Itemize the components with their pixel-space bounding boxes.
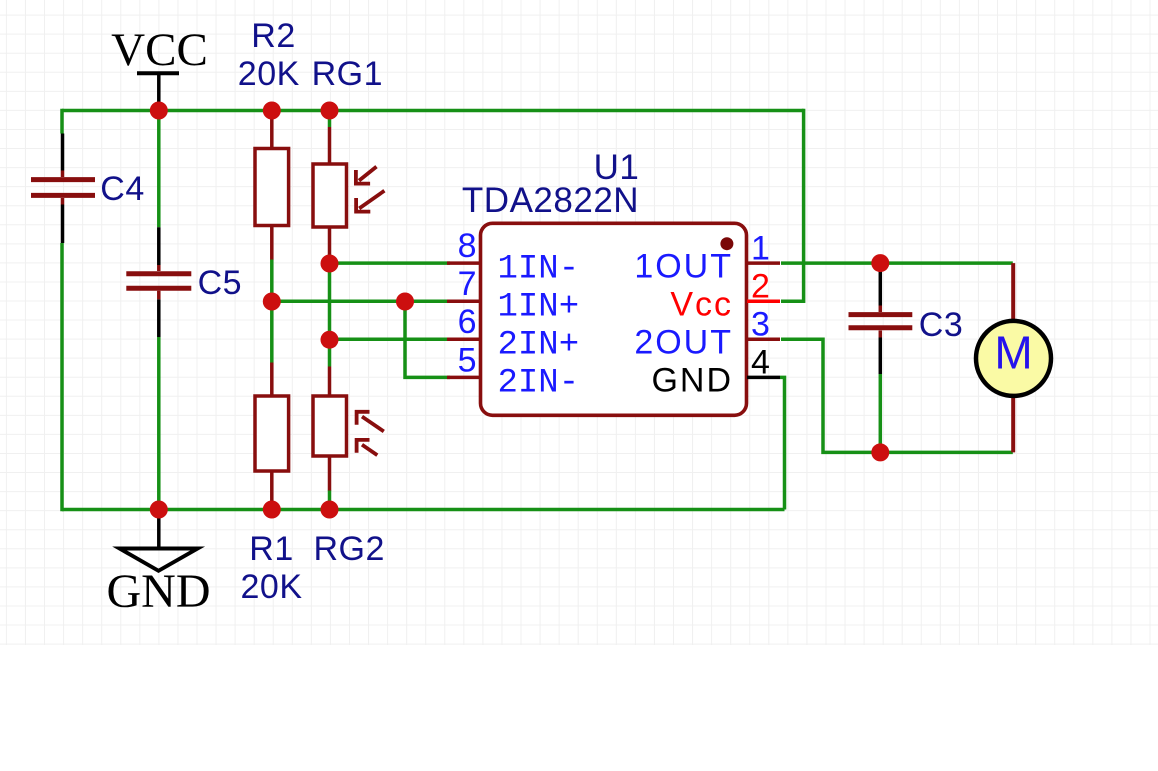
svg-text:RG1: RG1 [312, 55, 383, 93]
svg-text:R2: R2 [251, 17, 295, 55]
pin 7 [447, 299, 480, 303]
photoresistor RG1 [313, 127, 384, 255]
junction R1 bottom / bottom rail [263, 501, 281, 519]
svg-text:8: 8 [458, 227, 477, 265]
svg-text:4: 4 [751, 344, 770, 382]
wire branch to U1 pin 5 [405, 301, 450, 377]
svg-text:C5: C5 [198, 264, 242, 302]
junction VCC / top rail [150, 102, 168, 120]
motor M leads [1011, 263, 1015, 452]
photoresistor RG2 [313, 367, 384, 491]
wire node R2/R1 to U1 pin 7 [272, 299, 450, 303]
svg-text:2: 2 [751, 268, 770, 306]
svg-text:GND: GND [651, 362, 733, 400]
wire node RG1/RG2 to U1 pin 6 [330, 338, 451, 342]
junction pin7 wire branch to pin 5 [396, 293, 414, 311]
capacitor C4 [31, 134, 95, 244]
svg-text:2OUT: 2OUT [634, 324, 733, 362]
svg-text:1: 1 [751, 229, 770, 267]
svg-text:7: 7 [458, 265, 477, 303]
power flag VCC [137, 73, 179, 106]
svg-text:20K: 20K [238, 55, 300, 93]
wire bottom ground rail [62, 508, 785, 512]
svg-text:6: 6 [458, 303, 477, 341]
svg-text:1OUT: 1OUT [634, 247, 733, 285]
svg-text:GND: GND [107, 565, 211, 618]
junction C3 top / output [871, 254, 889, 272]
junction RG1 top / top rail [321, 102, 339, 120]
wire U1 pin 1 to C3 and motor top [781, 261, 1013, 265]
pin 6 [447, 338, 480, 342]
wire C3 bottom to output rail [879, 374, 883, 452]
wire left rail top segment (to C4) [60, 109, 64, 134]
junction R2 top / top rail [263, 102, 281, 120]
svg-text:VCC: VCC [111, 24, 208, 76]
junction GND / bottom rail [150, 501, 168, 519]
wire VCC junction down to C5 [157, 111, 161, 228]
svg-text:C4: C4 [100, 170, 144, 208]
svg-text:C3: C3 [919, 306, 963, 344]
motor M [976, 321, 1051, 396]
svg-text:RG2: RG2 [313, 530, 384, 568]
junction R2-R1 node to pin 7 [263, 293, 281, 311]
junction RG1-RG2 node to pin 6 [321, 331, 339, 349]
junction RG2 bottom / bottom rail [321, 501, 339, 519]
junction C3 bottom / output return [871, 443, 889, 461]
svg-text:R1: R1 [249, 530, 293, 568]
pin 2 [747, 299, 780, 303]
svg-text:M: M [994, 327, 1032, 379]
wire top rail to R2 top pin [270, 111, 274, 117]
pin 5 [447, 376, 480, 380]
svg-text:2IN+: 2IN+ [498, 327, 580, 365]
wire top rail to RG1 top pin [328, 111, 332, 128]
pin 4 [747, 376, 780, 380]
op-amp U1 TDA2822N body [481, 223, 747, 415]
svg-text:3: 3 [751, 306, 770, 344]
svg-text:TDA2822N: TDA2822N [462, 181, 639, 220]
wire left rail bottom segment (C4 to bottom rail) [60, 243, 64, 511]
junction RG1-RG2 node to pin 8 [321, 255, 339, 273]
capacitor C3 [849, 271, 913, 374]
wire U1 pin 4 to ground rail [780, 377, 785, 509]
svg-text:5: 5 [458, 341, 477, 379]
pin 1 orientation dot [720, 237, 733, 250]
pin 8 [447, 261, 480, 265]
svg-text:2IN-: 2IN- [498, 365, 580, 403]
svg-text:1IN+: 1IN+ [498, 289, 580, 327]
wire R1 bottom to ground rail [270, 505, 274, 510]
wire R2 bottom to R1 top (net at pin 7) [270, 259, 274, 363]
wire C5 down to bottom rail [157, 337, 161, 510]
wire U1 pin 3 to C3 bottom and motor bottom [781, 339, 1013, 452]
wire top VCC rail [62, 109, 804, 113]
resistor R1 [255, 363, 289, 506]
svg-text:Vcc: Vcc [670, 286, 733, 324]
svg-text:20K: 20K [241, 568, 303, 606]
pin 1 [747, 261, 780, 265]
resistor R2 [255, 114, 289, 260]
pin 3 [747, 338, 780, 342]
capacitor C5 [126, 227, 191, 337]
wire RG1 bottom to RG2 top [328, 254, 332, 366]
wire node RG1/RG2 to U1 pin 8 [330, 261, 451, 265]
wire RG2 bottom to ground rail [328, 490, 332, 510]
svg-text:1IN-: 1IN- [498, 250, 580, 288]
ground symbol [120, 510, 198, 571]
wire from top rail down to U1 pin 2 (Vcc) [781, 109, 804, 301]
